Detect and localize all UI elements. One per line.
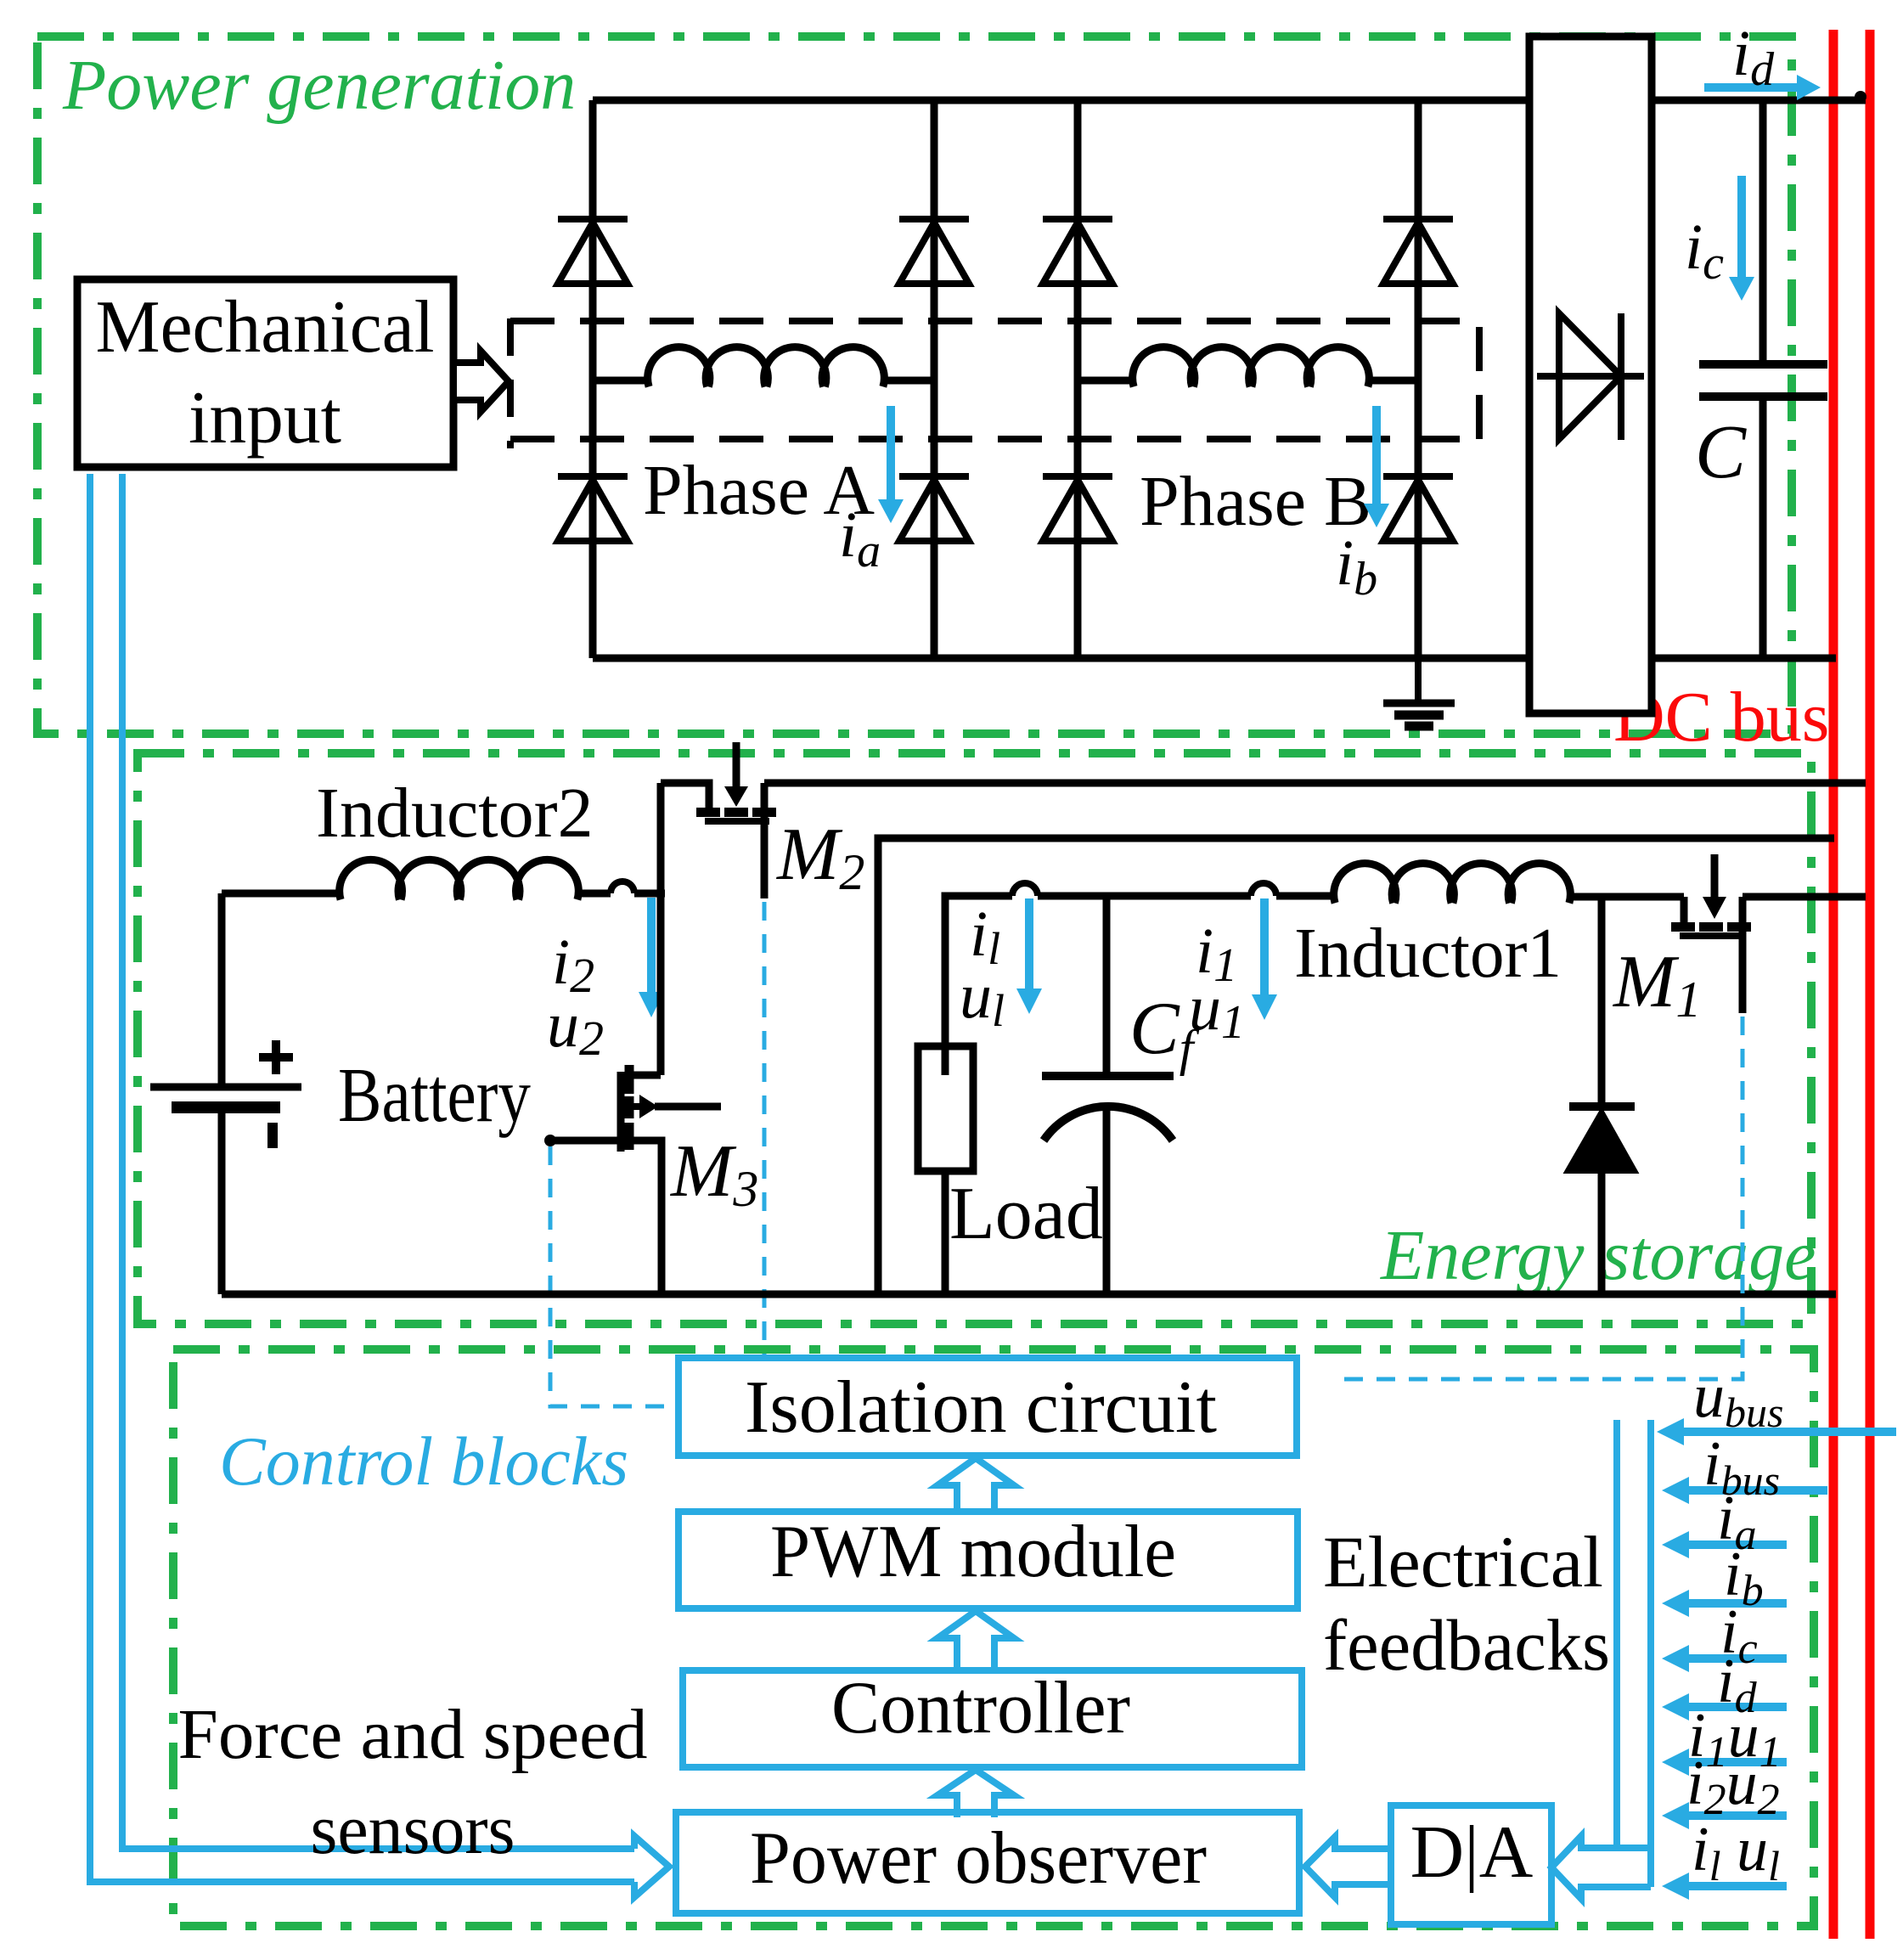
diode D1 upper leg1 (558, 219, 628, 284)
feedback arrow ubus (1657, 1418, 1896, 1445)
svg-text:Mechanical: Mechanical (96, 286, 435, 369)
Inductor2 (340, 859, 579, 899)
svg-text:Inductor2: Inductor2 (316, 774, 594, 853)
feedback arrow i1u1 (1662, 1749, 1787, 1776)
block arrow D|A to Power observer (1305, 1837, 1391, 1897)
diode D3 upper leg2 (899, 219, 969, 284)
Load resistor (918, 1046, 973, 1171)
feedback arrow ib (1662, 1590, 1787, 1617)
feedback arrow id (1662, 1693, 1787, 1721)
svg-text:Inductor1: Inductor1 (1294, 914, 1562, 993)
capacitor C (1699, 100, 1827, 658)
gate wire M3 (dashed) (550, 1146, 675, 1406)
MOSFET M1 (1671, 854, 1751, 1013)
diode D7 upper leg4 (1383, 219, 1453, 284)
svg-text:input: input (189, 377, 341, 459)
current probe loop i2 (611, 881, 634, 893)
diode D2 lower leg1 (558, 476, 628, 541)
svg-text:il ul: il ul (1692, 1815, 1780, 1890)
DC rail A (top, to bus) (764, 780, 1866, 787)
boost diode (1537, 313, 1644, 440)
gate wire M1 (dashed) (1338, 1017, 1743, 1379)
current arrow id (1704, 75, 1821, 100)
freewheel diode branch (1598, 897, 1606, 1294)
svg-text:feedbacks: feedbacks (1323, 1604, 1610, 1686)
bridge leg 3 (1074, 100, 1082, 658)
block arrow Observer to Controller (937, 1770, 1014, 1817)
feedback arrow i2u2 (1662, 1802, 1787, 1829)
diode D6 lower leg3 (1043, 476, 1112, 541)
Phase A winding (648, 347, 885, 387)
funnel arrow into D|A (1551, 1836, 1651, 1899)
block arrow Controller to PWM (937, 1611, 1014, 1669)
Inductor1 (1334, 864, 1571, 904)
PWM module box (678, 1512, 1298, 1608)
feedback arrow ic (1662, 1645, 1787, 1672)
diode D4 lower leg2 (899, 476, 969, 541)
bridge leg 2 (931, 100, 938, 658)
MOSFET M2 (661, 742, 776, 898)
Controller box (683, 1670, 1302, 1767)
Energy storage region border (138, 753, 1811, 1324)
DC rail B (return) (878, 838, 1834, 1294)
bridge leg 4 (1415, 100, 1422, 658)
ground (1383, 658, 1455, 726)
bridge leg 1 (589, 100, 597, 658)
MOSFET M3 (547, 1065, 721, 1294)
feedback collector line 1 (1613, 1420, 1620, 1848)
force/speed sensor wire 1 (122, 474, 634, 1849)
wire M1 to DC bus (1743, 893, 1866, 901)
DC bus red line 1 (1829, 30, 1838, 1939)
svg-text:PWM module: PWM module (770, 1511, 1176, 1593)
rectifier top rail (593, 97, 1866, 104)
machine stator dashed frame (510, 318, 1479, 324)
battery (150, 893, 301, 1294)
Power generation region border (37, 37, 1792, 734)
current arrow ia (878, 406, 904, 523)
node wire inductor2 to M2/M3 (657, 783, 665, 1075)
gate wire M2 (dashed) (763, 902, 767, 1358)
energy storage bottom rail (222, 1291, 1836, 1298)
boost diode box (1529, 37, 1652, 713)
feedback arrow ibus (1662, 1477, 1827, 1504)
rectifier bottom rail (593, 655, 1836, 662)
svg-text:Control blocks: Control blocks (219, 1422, 628, 1500)
D|A box (1391, 1805, 1551, 1924)
current arrow ic (1729, 176, 1754, 301)
load top wire (945, 896, 1012, 1075)
DC bus red line 2 (1866, 30, 1875, 1939)
svg-text:sensors: sensors (311, 1790, 515, 1869)
wire Cf to inductor1 (1106, 893, 1251, 900)
Power observer box (676, 1812, 1299, 1913)
svg-text:Force and speed: Force and speed (178, 1695, 648, 1774)
feedback arrow il ul (1662, 1873, 1787, 1900)
Isolation circuit box (678, 1358, 1297, 1456)
force/speed sensor wire 2 (90, 474, 634, 1882)
svg-text:Power generation: Power generation (62, 46, 576, 125)
sensors hollow arrowhead (634, 1836, 669, 1897)
diode D8 lower leg4 (1383, 476, 1453, 541)
freewheel diode (filled) (1566, 1107, 1636, 1172)
current arrow il ul (1016, 898, 1042, 1014)
current probe loop il (1012, 883, 1038, 896)
feedback collector line 2 (1647, 1420, 1654, 1887)
capacitor Cf (1042, 896, 1174, 1294)
current probe loop i1 (1251, 883, 1276, 896)
svg-text:Load: Load (949, 1173, 1103, 1255)
svg-text:Controller: Controller (831, 1667, 1130, 1749)
block arrow PWM to Isolation (937, 1458, 1014, 1510)
diode D5 upper leg3 (1043, 219, 1112, 284)
coupling hollow arrow (453, 351, 509, 412)
junction dot top rail at DC bus (1855, 91, 1866, 103)
svg-text:Battery: Battery (338, 1052, 531, 1138)
svg-text:Power observer: Power observer (750, 1817, 1207, 1900)
current arrow ib (1364, 406, 1389, 527)
svg-text:D|A: D|A (1410, 1811, 1534, 1894)
Phase B winding (1133, 347, 1370, 387)
svg-text:C: C (1695, 410, 1747, 494)
svg-text:Electrical: Electrical (1323, 1521, 1603, 1602)
Control blocks region border (173, 1349, 1814, 1926)
svg-text:Isolation circuit: Isolation circuit (745, 1366, 1217, 1449)
current arrow i1 u1 (1252, 898, 1277, 1020)
feedback arrow ia (1662, 1531, 1787, 1558)
Mechanical input box (77, 279, 453, 467)
current arrow i2 u2 (639, 898, 664, 1017)
